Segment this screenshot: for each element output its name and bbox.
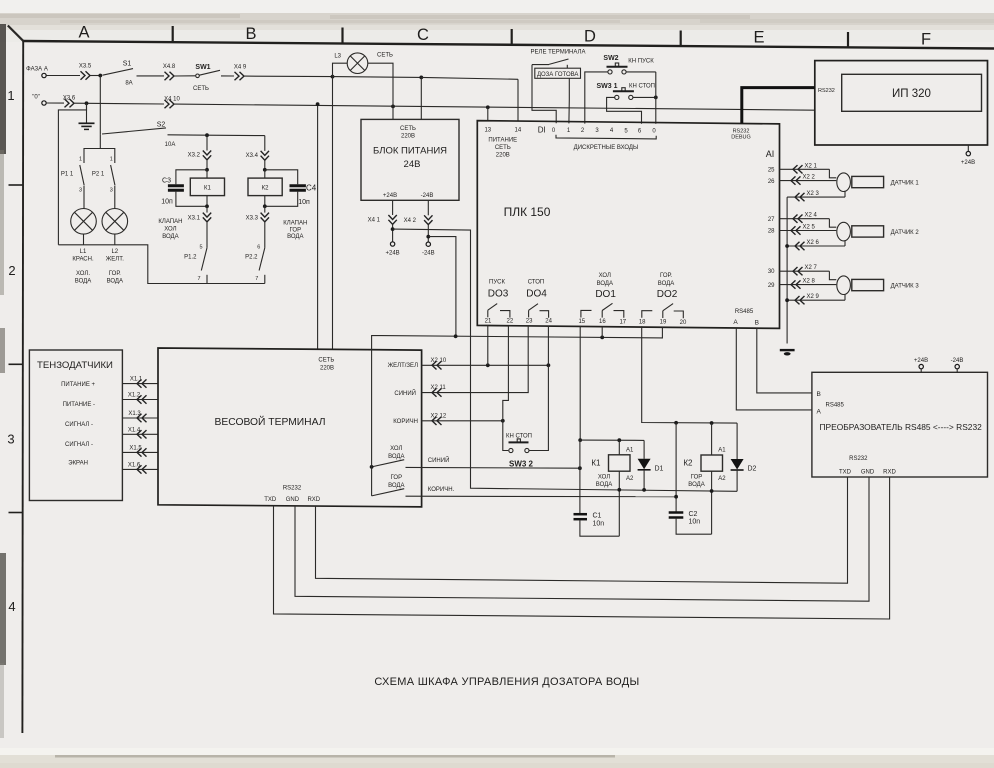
- wire: [206, 222, 208, 248]
- svg-text:27: 27: [768, 217, 775, 223]
- node K1 A1: [617, 438, 621, 442]
- wire phase line: [46, 75, 80, 77]
- svg-text:X2 7: X2 7: [805, 265, 818, 271]
- svg-text:23: 23: [526, 319, 533, 325]
- svg-text:С3: С3: [162, 177, 171, 184]
- wire AI pin25 X2.1: [780, 163, 837, 178]
- sensor box ДАТЧИК 3: [852, 279, 920, 290]
- svg-text:A: A: [78, 24, 89, 42]
- wire SW2 right lead: [626, 71, 656, 73]
- node X2.9: [785, 298, 789, 302]
- IP320 outer box: [815, 61, 988, 145]
- svg-text:ВОДА: ВОДА: [597, 281, 613, 287]
- terminal X4.1: [368, 215, 397, 224]
- wire neutral line: [46, 102, 64, 104]
- svg-text:1: 1: [7, 88, 14, 103]
- svg-text:RS232: RS232: [283, 486, 302, 492]
- svg-text:ИП 320: ИП 320: [892, 88, 931, 100]
- svg-text:X1.3: X1.3: [128, 411, 141, 417]
- terminal -24В: [422, 242, 435, 257]
- svg-text:28: 28: [768, 229, 775, 235]
- terminal X4.2: [404, 215, 433, 224]
- wire terminal TXD down: [274, 477, 890, 619]
- DI pin numbers: [552, 128, 657, 135]
- svg-text:D1: D1: [655, 465, 664, 472]
- wire SW3.1 right common: [633, 96, 656, 98]
- svg-text:P2.2: P2.2: [245, 254, 258, 260]
- svg-text:X2 1: X2 1: [805, 163, 818, 169]
- label КЛАПАН ГОР ВОДА: [283, 221, 307, 241]
- contact DO3: [488, 304, 510, 318]
- switch ХОЛ ВОДА: [372, 446, 405, 467]
- node K2 bottom: [263, 204, 267, 208]
- svg-text:22: 22: [507, 318, 514, 324]
- svg-text:E: E: [753, 28, 764, 46]
- wire relay right to PLC pin 1: [568, 78, 570, 123]
- svg-text:ВОДА: ВОДА: [75, 279, 91, 285]
- label RS232 DEBUG: [731, 129, 751, 141]
- svg-text:B: B: [245, 25, 256, 43]
- svg-text:КОРИЧН: КОРИЧН: [393, 419, 418, 425]
- svg-text:RS232: RS232: [818, 88, 835, 94]
- svg-text:25: 25: [768, 168, 775, 174]
- wire X2.3 common: [787, 191, 845, 202]
- svg-text:СХЕМА ШКАФА УПРАВЛЕНИЯ ДОЗАТОР: СХЕМА ШКАФА УПРАВЛЕНИЯ ДОЗАТОРА ВОДЫ: [374, 676, 639, 688]
- ground symbol left: [79, 103, 95, 129]
- svg-text:X1.2: X1.2: [128, 393, 141, 399]
- terminal X3.2: [188, 151, 212, 160]
- wire drop to PLC pin 13: [487, 107, 489, 121]
- contact P2.1: [92, 157, 115, 209]
- terminal "0": [32, 95, 46, 106]
- node lamp L3 neutral: [391, 105, 395, 109]
- svg-text:X3.1: X3.1: [188, 216, 201, 222]
- svg-text:+24В: +24В: [383, 193, 397, 199]
- svg-text:A1: A1: [626, 448, 634, 454]
- column tick C/D: [511, 29, 513, 45]
- wire: [175, 75, 196, 77]
- wire lamp bottom rail: [58, 245, 264, 284]
- contact DO2: [642, 304, 684, 319]
- node lamp/terminal drop: [331, 75, 335, 79]
- svg-text:RXD: RXD: [883, 469, 896, 475]
- svg-text:ДАТЧИК 2: ДАТЧИК 2: [891, 230, 920, 236]
- label L1 КРАСН: [72, 249, 94, 285]
- terminal X4.8: [163, 64, 176, 80]
- svg-text:6: 6: [257, 244, 260, 250]
- svg-text:ГОР: ГОР: [691, 475, 703, 481]
- svg-text:+24В: +24В: [914, 358, 928, 364]
- svg-text:SW2: SW2: [603, 55, 618, 62]
- svg-text:DO3: DO3: [488, 289, 509, 300]
- svg-text:ВОДА: ВОДА: [287, 234, 303, 240]
- wire -24 to bus A: [428, 237, 456, 337]
- svg-text:X2 8: X2 8: [803, 279, 816, 285]
- svg-text:GND: GND: [861, 469, 875, 475]
- wire C2 bottom loop: [676, 519, 712, 535]
- terminal X4.9: [234, 64, 247, 80]
- node switch common: [370, 465, 374, 469]
- node +24: [391, 227, 395, 231]
- svg-text:DEBUG: DEBUG: [731, 135, 751, 141]
- button SW3.1 КН СТОП: [596, 83, 655, 100]
- svg-text:DO2: DO2: [657, 289, 678, 300]
- svg-text:ЖЕЛТ.: ЖЕЛТ.: [106, 257, 124, 263]
- wire: [206, 160, 208, 170]
- cable grommet sensor 2: [837, 222, 851, 241]
- svg-text:26: 26: [768, 179, 775, 185]
- svg-text:A: A: [733, 319, 738, 326]
- node X2.6: [785, 244, 789, 248]
- svg-text:X1.1: X1.1: [130, 377, 143, 383]
- node -24 junction on bus: [454, 334, 458, 338]
- terminal ФАЗА А: [26, 67, 48, 78]
- svg-text:ХОЛ.: ХОЛ.: [76, 271, 90, 277]
- converter box ПРЕОБРАЗОВАТЕЛЬ: [812, 372, 988, 477]
- wire terminal feed left: [317, 104, 319, 349]
- wire: [333, 76, 422, 79]
- wire terminal RXD down: [316, 477, 848, 583]
- svg-text:ВОДА: ВОДА: [162, 234, 178, 240]
- svg-text:TXD: TXD: [839, 469, 852, 475]
- wire PLC pin21: [487, 326, 489, 366]
- button SW2 КН ПУСК: [603, 55, 654, 74]
- svg-text:C2: C2: [689, 511, 698, 518]
- cable grommet sensor 3: [837, 276, 851, 295]
- terminal +24В under IP320: [961, 145, 975, 166]
- svg-text:DO4: DO4: [526, 289, 547, 300]
- svg-text:ПИТАНИЕ -: ПИТАНИЕ -: [63, 402, 95, 408]
- svg-text:К2: К2: [683, 459, 693, 468]
- node СИНИЙ on K1 rail: [578, 466, 582, 470]
- svg-text:X2 12: X2 12: [431, 413, 447, 419]
- svg-text:20: 20: [680, 320, 687, 326]
- wire C1 bottom loop: [580, 520, 619, 536]
- svg-text:4: 4: [8, 599, 15, 614]
- relay contact ДОЗА ГОТОВА: [532, 59, 569, 68]
- node D1 on +24 rail: [642, 488, 646, 492]
- svg-text:SW1: SW1: [195, 64, 210, 71]
- svg-text:L2: L2: [111, 249, 118, 255]
- column tick D/E: [680, 31, 682, 47]
- cable grommet sensor 1: [837, 173, 851, 192]
- svg-text:X3.5: X3.5: [79, 64, 92, 70]
- left border line: [21, 41, 24, 733]
- svg-text:К2: К2: [262, 185, 269, 191]
- svg-text:SW3 2: SW3 2: [509, 459, 534, 468]
- svg-text:2: 2: [8, 263, 15, 278]
- svg-text:P2 1: P2 1: [92, 172, 105, 178]
- svg-text:ХОЛ: ХОЛ: [164, 227, 176, 233]
- terminal -24В converter: [951, 358, 964, 372]
- wire: [264, 136, 266, 151]
- wire: [75, 102, 165, 105]
- wire: [264, 160, 266, 170]
- svg-text:СИНИЙ: СИНИЙ: [428, 456, 450, 464]
- relay coil K2: [683, 423, 726, 488]
- wire PLC pin16: [601, 327, 603, 338]
- svg-text:КН СТОП: КН СТОП: [629, 84, 655, 90]
- wire drop to PLC pin 14: [517, 79, 519, 121]
- svg-text:БЛОК ПИТАНИЯ: БЛОК ПИТАНИЯ: [373, 146, 447, 157]
- svg-text:B: B: [755, 319, 759, 326]
- node K1 bottom: [205, 204, 209, 208]
- svg-text:X1.4: X1.4: [128, 427, 141, 433]
- svg-text:X3.2: X3.2: [188, 153, 201, 159]
- terminal +24В converter: [914, 358, 928, 372]
- terminal X3.4: [246, 151, 269, 160]
- svg-text:+24В: +24В: [386, 251, 400, 257]
- wire X1.1: [122, 377, 158, 388]
- wire sensor common rail: [786, 197, 788, 343]
- svg-text:ФАЗА А: ФАЗА А: [26, 67, 48, 73]
- node КОРИЧН on K2 rail: [674, 495, 678, 499]
- wire neutral to IP320: [175, 104, 816, 110]
- svg-text:X3 6: X3 6: [63, 96, 76, 102]
- svg-text:L1: L1: [80, 249, 87, 255]
- svg-text:1: 1: [79, 157, 82, 163]
- svg-text:X2 2: X2 2: [803, 175, 816, 181]
- svg-text:RS485: RS485: [826, 402, 845, 408]
- svg-text:220В: 220В: [496, 152, 510, 158]
- svg-text:ЖЕЛТ/ЗЕЛ: ЖЕЛТ/ЗЕЛ: [388, 363, 418, 369]
- svg-text:X3.3: X3.3: [246, 216, 259, 222]
- svg-text:СТОП: СТОП: [528, 279, 545, 285]
- svg-text:КРАСН.: КРАСН.: [72, 257, 94, 263]
- wire: [91, 75, 101, 77]
- svg-text:19: 19: [660, 320, 667, 326]
- load cells box ТЕНЗОДАТЧИКИ: [29, 350, 122, 501]
- label TXD GND RXD: [264, 497, 321, 503]
- node X3.2 branch: [205, 133, 209, 137]
- wire: [421, 77, 518, 79]
- button SW3.2 КН СТОП: [506, 434, 534, 469]
- breaker S1 8A: [103, 60, 134, 86]
- svg-text:8А: 8А: [125, 81, 132, 87]
- svg-text:21: 21: [485, 318, 492, 324]
- box ДОЗА ГОТОВА: [535, 68, 581, 78]
- node pin24 junction: [547, 363, 551, 367]
- contact DO1: [581, 303, 624, 318]
- svg-text:X2 4: X2 4: [805, 213, 818, 219]
- svg-text:P1 1: P1 1: [61, 172, 74, 178]
- node S1 input: [98, 74, 102, 78]
- node K1 A2 on +24 rail: [617, 488, 621, 492]
- svg-text:КН ПУСК: КН ПУСК: [628, 59, 654, 65]
- svg-text:X4 2: X4 2: [404, 218, 417, 224]
- wire thick RS232 PLC to IP320: [742, 88, 815, 124]
- svg-text:ВЕСОВОЙ ТЕРМИНАЛ: ВЕСОВОЙ ТЕРМИНАЛ: [215, 415, 326, 428]
- wire: [137, 75, 165, 77]
- wire PSU +24 down: [392, 200, 394, 215]
- wire AI pin26 X2.2: [780, 175, 837, 185]
- wire PSU -24 down: [427, 200, 429, 215]
- wire X1.2: [122, 393, 158, 404]
- svg-text:ВОДА: ВОДА: [596, 482, 612, 488]
- svg-text:10n: 10n: [593, 520, 605, 527]
- svg-text:220В: 220В: [401, 133, 415, 139]
- svg-text:X4 10: X4 10: [164, 97, 180, 103]
- node -24: [426, 235, 430, 239]
- wire X2.6 common: [787, 240, 845, 250]
- svg-text:ПРЕОБРАЗОВАТЕЛЬ RS485 <---->: ПРЕОБРАЗОВАТЕЛЬ RS485 <----> RS232: [820, 422, 983, 432]
- svg-text:ВОДА: ВОДА: [388, 483, 404, 489]
- terminal X3.5: [79, 64, 92, 80]
- svg-text:A2: A2: [626, 476, 634, 482]
- column tick A/B: [172, 26, 174, 42]
- svg-text:КЛАПАН: КЛАПАН: [158, 219, 182, 225]
- wire +24 rail down right side: [393, 229, 737, 491]
- wire X1.6: [122, 462, 158, 473]
- label КЛАПАН ХОЛ ВОДА: [158, 219, 182, 240]
- svg-text:ГОР.: ГОР.: [109, 271, 121, 277]
- svg-text:СЕТЬ: СЕТЬ: [495, 145, 511, 151]
- row tick 1/2: [9, 184, 24, 186]
- svg-text:X2 5: X2 5: [803, 225, 816, 231]
- svg-text:X2 3: X2 3: [807, 191, 820, 197]
- column tick B/C: [341, 28, 343, 44]
- svg-text:18: 18: [639, 320, 646, 326]
- node power unit drop: [419, 76, 423, 80]
- svg-text:TXD: TXD: [264, 497, 277, 503]
- ground sensor shield: [780, 350, 795, 355]
- svg-text:3: 3: [110, 188, 113, 194]
- wire X2.12: [422, 413, 503, 425]
- row tick 3/4: [9, 512, 24, 514]
- svg-text:ПИТАНИЕ +: ПИТАНИЕ +: [61, 382, 95, 388]
- svg-text:X3.4: X3.4: [246, 153, 259, 159]
- relay coil K1: [190, 170, 224, 207]
- svg-text:ХОЛ: ХОЛ: [599, 273, 611, 279]
- svg-text:СЕТЬ: СЕТЬ: [377, 53, 393, 59]
- power supply box БЛОК ПИТАНИЯ: [361, 119, 459, 200]
- svg-text:17: 17: [619, 319, 626, 325]
- svg-text:ЭКРАН: ЭКРАН: [68, 461, 88, 467]
- diode D1: [638, 440, 664, 490]
- wire S2 to valve relays: [168, 134, 265, 137]
- top border line: [23, 41, 994, 49]
- contact P1.2: [184, 244, 207, 283]
- contact P2.2: [245, 244, 265, 283]
- breaker S2 10A: [102, 122, 175, 149]
- svg-text:29: 29: [768, 283, 775, 289]
- node neutral left branch: [85, 101, 89, 105]
- node pin16 junction on bus: [600, 336, 604, 340]
- terminal X3.3: [246, 206, 269, 222]
- svg-text:X2 10: X2 10: [431, 358, 447, 364]
- svg-text:X2 9: X2 9: [807, 294, 820, 300]
- svg-text:S1: S1: [123, 60, 132, 67]
- wire K2 A2 down: [711, 471, 713, 534]
- wire AI pin30 X2.7: [780, 265, 837, 280]
- label ГОР ВОДА DO2: [657, 273, 678, 300]
- node pin21 junction: [486, 363, 490, 367]
- wire X2.11 to PLC pin23: [422, 326, 529, 397]
- relay coil K1: [591, 440, 634, 488]
- svg-text:ХОЛ: ХОЛ: [598, 475, 610, 481]
- svg-text:СЕТЬ: СЕТЬ: [193, 86, 209, 92]
- wire X1.5: [122, 445, 158, 456]
- label TXD GND RXD: [839, 469, 896, 475]
- contact P1.1: [61, 157, 84, 209]
- contact DO4: [529, 304, 549, 318]
- lamp L3: [334, 53, 393, 74]
- svg-text:ХОЛ: ХОЛ: [390, 446, 402, 452]
- svg-text:ПУСК: ПУСК: [489, 279, 505, 285]
- svg-text:13: 13: [484, 127, 491, 133]
- svg-text:КОРИЧН.: КОРИЧН.: [428, 487, 455, 493]
- capacitor C2: [669, 511, 701, 526]
- svg-text:ВОДА: ВОДА: [388, 454, 404, 460]
- svg-text:10п: 10п: [161, 199, 173, 206]
- wire КОРИЧН to C2 rail: [406, 487, 677, 497]
- wire PLC pin18 to K2: [642, 326, 737, 423]
- relay coil K2: [248, 170, 282, 207]
- svg-text:RXD: RXD: [307, 497, 320, 503]
- svg-text:30: 30: [768, 269, 775, 275]
- wire: [100, 149, 115, 164]
- svg-text:ВОДА: ВОДА: [658, 281, 674, 287]
- wire terminal GND down: [295, 477, 869, 601]
- wire K1 A2 down: [618, 471, 620, 536]
- lamp L2: [102, 209, 128, 245]
- wire X2.9 common: [787, 294, 845, 304]
- lamp L1: [71, 209, 97, 245]
- wire: [264, 222, 266, 248]
- svg-text:ВОДА: ВОДА: [107, 279, 123, 285]
- row tick 2/3: [9, 363, 24, 365]
- wire: [206, 135, 208, 150]
- wire S1 node down to S2: [99, 76, 101, 135]
- terminal X3.6: [63, 96, 76, 108]
- switch ГОР ВОДА: [372, 475, 405, 496]
- node X2.12 junction: [501, 419, 505, 423]
- node K2 top: [263, 168, 267, 172]
- svg-text:СЕТЬ: СЕТЬ: [400, 126, 416, 132]
- svg-text:GND: GND: [286, 497, 300, 503]
- wire PLC A to converter: [736, 328, 812, 410]
- wire SW3.2 right to PLC pin24: [529, 326, 548, 451]
- svg-text:-24В: -24В: [422, 251, 435, 257]
- svg-text:RS485: RS485: [735, 309, 754, 315]
- svg-text:16: 16: [599, 319, 606, 325]
- wire K1 top: [580, 439, 644, 441]
- IP320 display box: [842, 74, 982, 111]
- svg-text:3: 3: [7, 432, 14, 447]
- wire AI pin29 X2.8: [780, 279, 837, 289]
- svg-text:15: 15: [578, 319, 585, 325]
- wire terminal feed right: [332, 77, 334, 349]
- label СЕТЬ 220В: [318, 358, 334, 372]
- wire common to PLC pin 0r: [655, 72, 657, 124]
- svg-text:ТЕНЗОДАТЧИКИ: ТЕНЗОДАТЧИКИ: [37, 360, 113, 371]
- svg-text:-24В: -24В: [421, 193, 434, 199]
- wire X2.10: [422, 358, 549, 370]
- svg-text:"0": "0": [32, 95, 40, 101]
- svg-text:СИГНАЛ -: СИГНАЛ -: [65, 422, 93, 428]
- switch SW1 СЕТЬ: [193, 64, 220, 92]
- svg-text:X4.8: X4.8: [163, 64, 176, 70]
- wire X1.3: [122, 411, 158, 422]
- svg-text:14: 14: [515, 128, 522, 134]
- wire bus A DO common: [372, 327, 663, 496]
- DO pin numbers: [485, 318, 687, 326]
- sensor box ДАТЧИК 2: [852, 226, 920, 237]
- capacitor C3: [161, 170, 207, 207]
- label ПУСК DO3: [488, 279, 509, 299]
- terminal X3.1: [188, 206, 212, 222]
- svg-text:К1: К1: [591, 458, 601, 467]
